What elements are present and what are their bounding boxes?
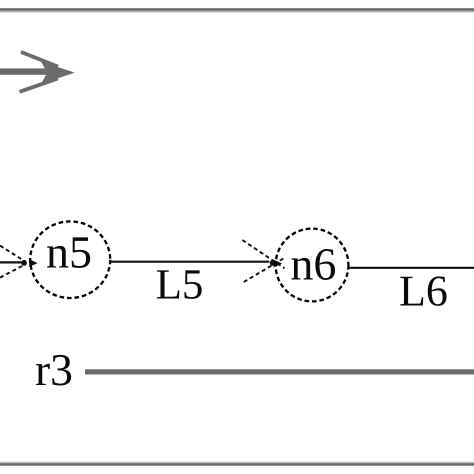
wire: incoming link into n5 from left edge [0, 261, 22, 263]
node n6 [276, 229, 349, 302]
solid arrow tip into n5 [29, 259, 37, 267]
svg-text:n5: n5 [46, 227, 92, 278]
arrowhead barbs into n5 (dashed) [0, 246, 26, 278]
svg-text:L6: L6 [399, 266, 448, 315]
wire: link n5 to n6 [109, 261, 269, 263]
arrowhead barbs into n6 (dashed, crossing) [242, 240, 284, 282]
r3 range line [85, 369, 474, 374]
gray flow arrow (top left) [0, 52, 75, 92]
svg-text:L5: L5 [156, 262, 204, 309]
svg-text:r3: r3 [35, 344, 73, 395]
bottom border [0, 462, 474, 464]
wire: link n6 to right edge [348, 267, 474, 269]
junction dot before n5 [21, 260, 27, 266]
node n5 [30, 221, 110, 298]
svg-text:n6: n6 [290, 238, 336, 289]
top border [0, 10, 474, 12]
junction dot before n6 [270, 260, 276, 266]
solid arrow tip into n6 [274, 260, 282, 268]
